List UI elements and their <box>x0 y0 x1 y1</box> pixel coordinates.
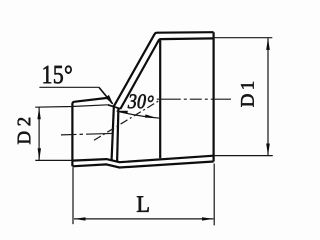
centerline small pipe axis <box>61 133 114 135</box>
L right extension line <box>213 164 215 226</box>
D1 dimension line <box>267 38 269 155</box>
bottom inner line <box>72 156 213 163</box>
L arrow left <box>74 217 86 220</box>
D2 arrow up <box>37 107 40 119</box>
joint inner-top jog line <box>108 105 121 109</box>
L left extension line <box>72 168 74 225</box>
big pipe left edge <box>159 40 161 158</box>
label D1 (rotated) <box>241 82 254 107</box>
slanted transition axis <box>94 100 160 140</box>
L arrow right <box>202 217 214 220</box>
D2 arrow down <box>38 148 41 160</box>
big pipe right edge <box>213 32 215 161</box>
label 30 deg <box>128 94 154 108</box>
V notch left side <box>108 98 113 104</box>
joint vertical A (small pipe end face) <box>112 105 114 160</box>
15 deg leader line <box>39 86 99 88</box>
D1 arrow down <box>266 144 270 156</box>
15 deg leader slant <box>99 87 112 103</box>
cone outer line and big pipe top outer edge <box>114 32 213 105</box>
D2 dimension line <box>38 108 40 161</box>
D1 bottom extension line <box>214 155 273 157</box>
small pipe left edge and top edge <box>72 98 107 166</box>
label L <box>137 196 149 211</box>
D1 top extension line <box>214 37 273 39</box>
arrowheads <box>37 38 269 221</box>
30 deg arc left arrowhead <box>116 111 128 114</box>
cone inner line and big pipe top inner edge <box>120 38 213 109</box>
centerline big pipe axis <box>157 98 231 100</box>
joint vertical B (cone small end face) <box>117 109 118 162</box>
D1 arrow up <box>266 38 270 50</box>
label 15 deg <box>44 66 72 84</box>
30 deg arc right arrowhead <box>145 114 156 118</box>
label D2 (rotated) <box>18 118 31 144</box>
bottom outer line <box>72 162 213 168</box>
30 deg arc arrow line <box>117 111 160 118</box>
15 deg leader arrowhead <box>105 95 113 105</box>
L dimension line <box>74 218 213 220</box>
D2 top extension line <box>35 105 108 107</box>
D2 bottom extension line <box>35 159 72 161</box>
